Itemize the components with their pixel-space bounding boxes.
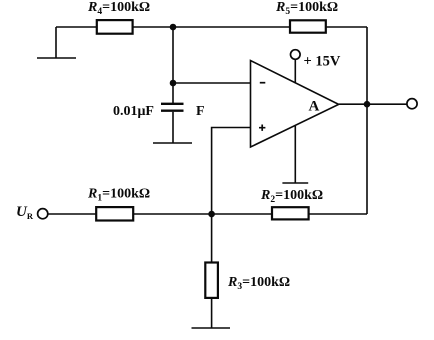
- wire top horizontal: [56, 26, 367, 28]
- wire inverting input: [173, 82, 251, 84]
- resistor R3: [205, 263, 218, 298]
- wire op-amp bottom pin to ground: [294, 126, 296, 183]
- label plus input: [259, 125, 265, 131]
- label R5=100kΩ: [275, 0, 338, 17]
- output terminal circle: [407, 99, 417, 109]
- node junction dot noninverting tee: [208, 211, 215, 218]
- svg-text:+ 15V: + 15V: [304, 53, 341, 69]
- wire feedback vertical right: [366, 27, 368, 214]
- node output junction dot: [364, 101, 371, 108]
- wire +15V stem to op-amp top edge: [294, 59, 296, 83]
- ground (below op-amp): [282, 182, 308, 184]
- label + 15V: [304, 53, 341, 69]
- svg-text:F: F: [196, 104, 205, 119]
- svg-text:UR: UR: [16, 204, 34, 221]
- resistor R1: [96, 207, 133, 220]
- wire R3 to ground: [211, 299, 213, 329]
- svg-text:A: A: [309, 99, 320, 115]
- label 0.01μF: [113, 104, 154, 119]
- label R4=100kΩ: [87, 0, 150, 17]
- wire noninverting input riser: [212, 128, 251, 215]
- svg-text:R4=100kΩ: R4=100kΩ: [87, 0, 150, 17]
- ground (below R3): [192, 327, 231, 329]
- node junction dot inverting tee: [170, 80, 177, 87]
- label F: [196, 104, 205, 119]
- label R1=100kΩ: [87, 187, 150, 204]
- node junction dot top: [170, 24, 177, 31]
- svg-text:R5=100kΩ: R5=100kΩ: [275, 0, 338, 17]
- label R2=100kΩ: [260, 188, 323, 205]
- svg-text:R1=100kΩ: R1=100kΩ: [87, 187, 150, 204]
- svg-text:0.01μF: 0.01μF: [113, 104, 154, 119]
- resistor R5: [290, 20, 326, 32]
- wire capacitor to ground: [172, 112, 174, 143]
- resistor R2: [272, 207, 309, 219]
- capacitor F plates: [161, 104, 184, 111]
- label minus input: [260, 82, 266, 84]
- ground (left, input side of R4): [37, 27, 76, 58]
- svg-text:R3=100kΩ: R3=100kΩ: [227, 275, 290, 292]
- wire junction to R3: [211, 214, 213, 262]
- svg-text:R2=100kΩ: R2=100kΩ: [260, 188, 323, 205]
- wire vertical top node to capacitor: [172, 27, 174, 104]
- label R3=100kΩ: [227, 275, 290, 292]
- power terminal +15V circle: [291, 50, 301, 60]
- wire output from apex: [339, 103, 407, 105]
- resistor R4: [97, 20, 133, 34]
- label UR: [16, 204, 34, 221]
- wire middle horizontal: [48, 213, 367, 215]
- label A: [309, 99, 320, 115]
- op-amp U1 triangle: [251, 61, 339, 148]
- input terminal UR circle: [38, 209, 48, 219]
- ground (below capacitor): [153, 142, 192, 144]
